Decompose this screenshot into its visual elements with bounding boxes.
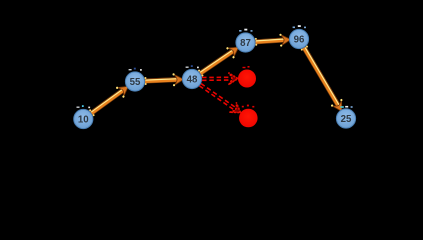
svg-text:96: 96 (294, 35, 305, 46)
wire edge 48->87 (orange arrow) (196, 42, 242, 79)
node 48 (182, 65, 201, 88)
svg-text:55: 55 (130, 77, 141, 88)
wire edge 48->redB (red dashed arrow) (197, 80, 244, 118)
wire edge 87->96 (orange arrow) (255, 33, 292, 48)
wire edge 10->55 (orange arrow) (87, 81, 132, 119)
wire edge 55->48 (orange arrow) (144, 73, 184, 88)
node 10 (74, 105, 93, 128)
svg-text:10: 10 (78, 115, 89, 126)
node 25 (336, 106, 355, 128)
node 55 (125, 68, 144, 91)
node 96 (289, 25, 308, 48)
node 87 (236, 29, 255, 52)
wire edge 48->redA (red dashed arrow) (202, 73, 238, 85)
wire edge 96->25 (orange arrow) (298, 44, 347, 115)
svg-text:25: 25 (341, 114, 352, 125)
svg-text:87: 87 (240, 38, 251, 49)
node redA (238, 66, 256, 88)
node redB (239, 105, 258, 128)
svg-text:48: 48 (187, 75, 198, 86)
